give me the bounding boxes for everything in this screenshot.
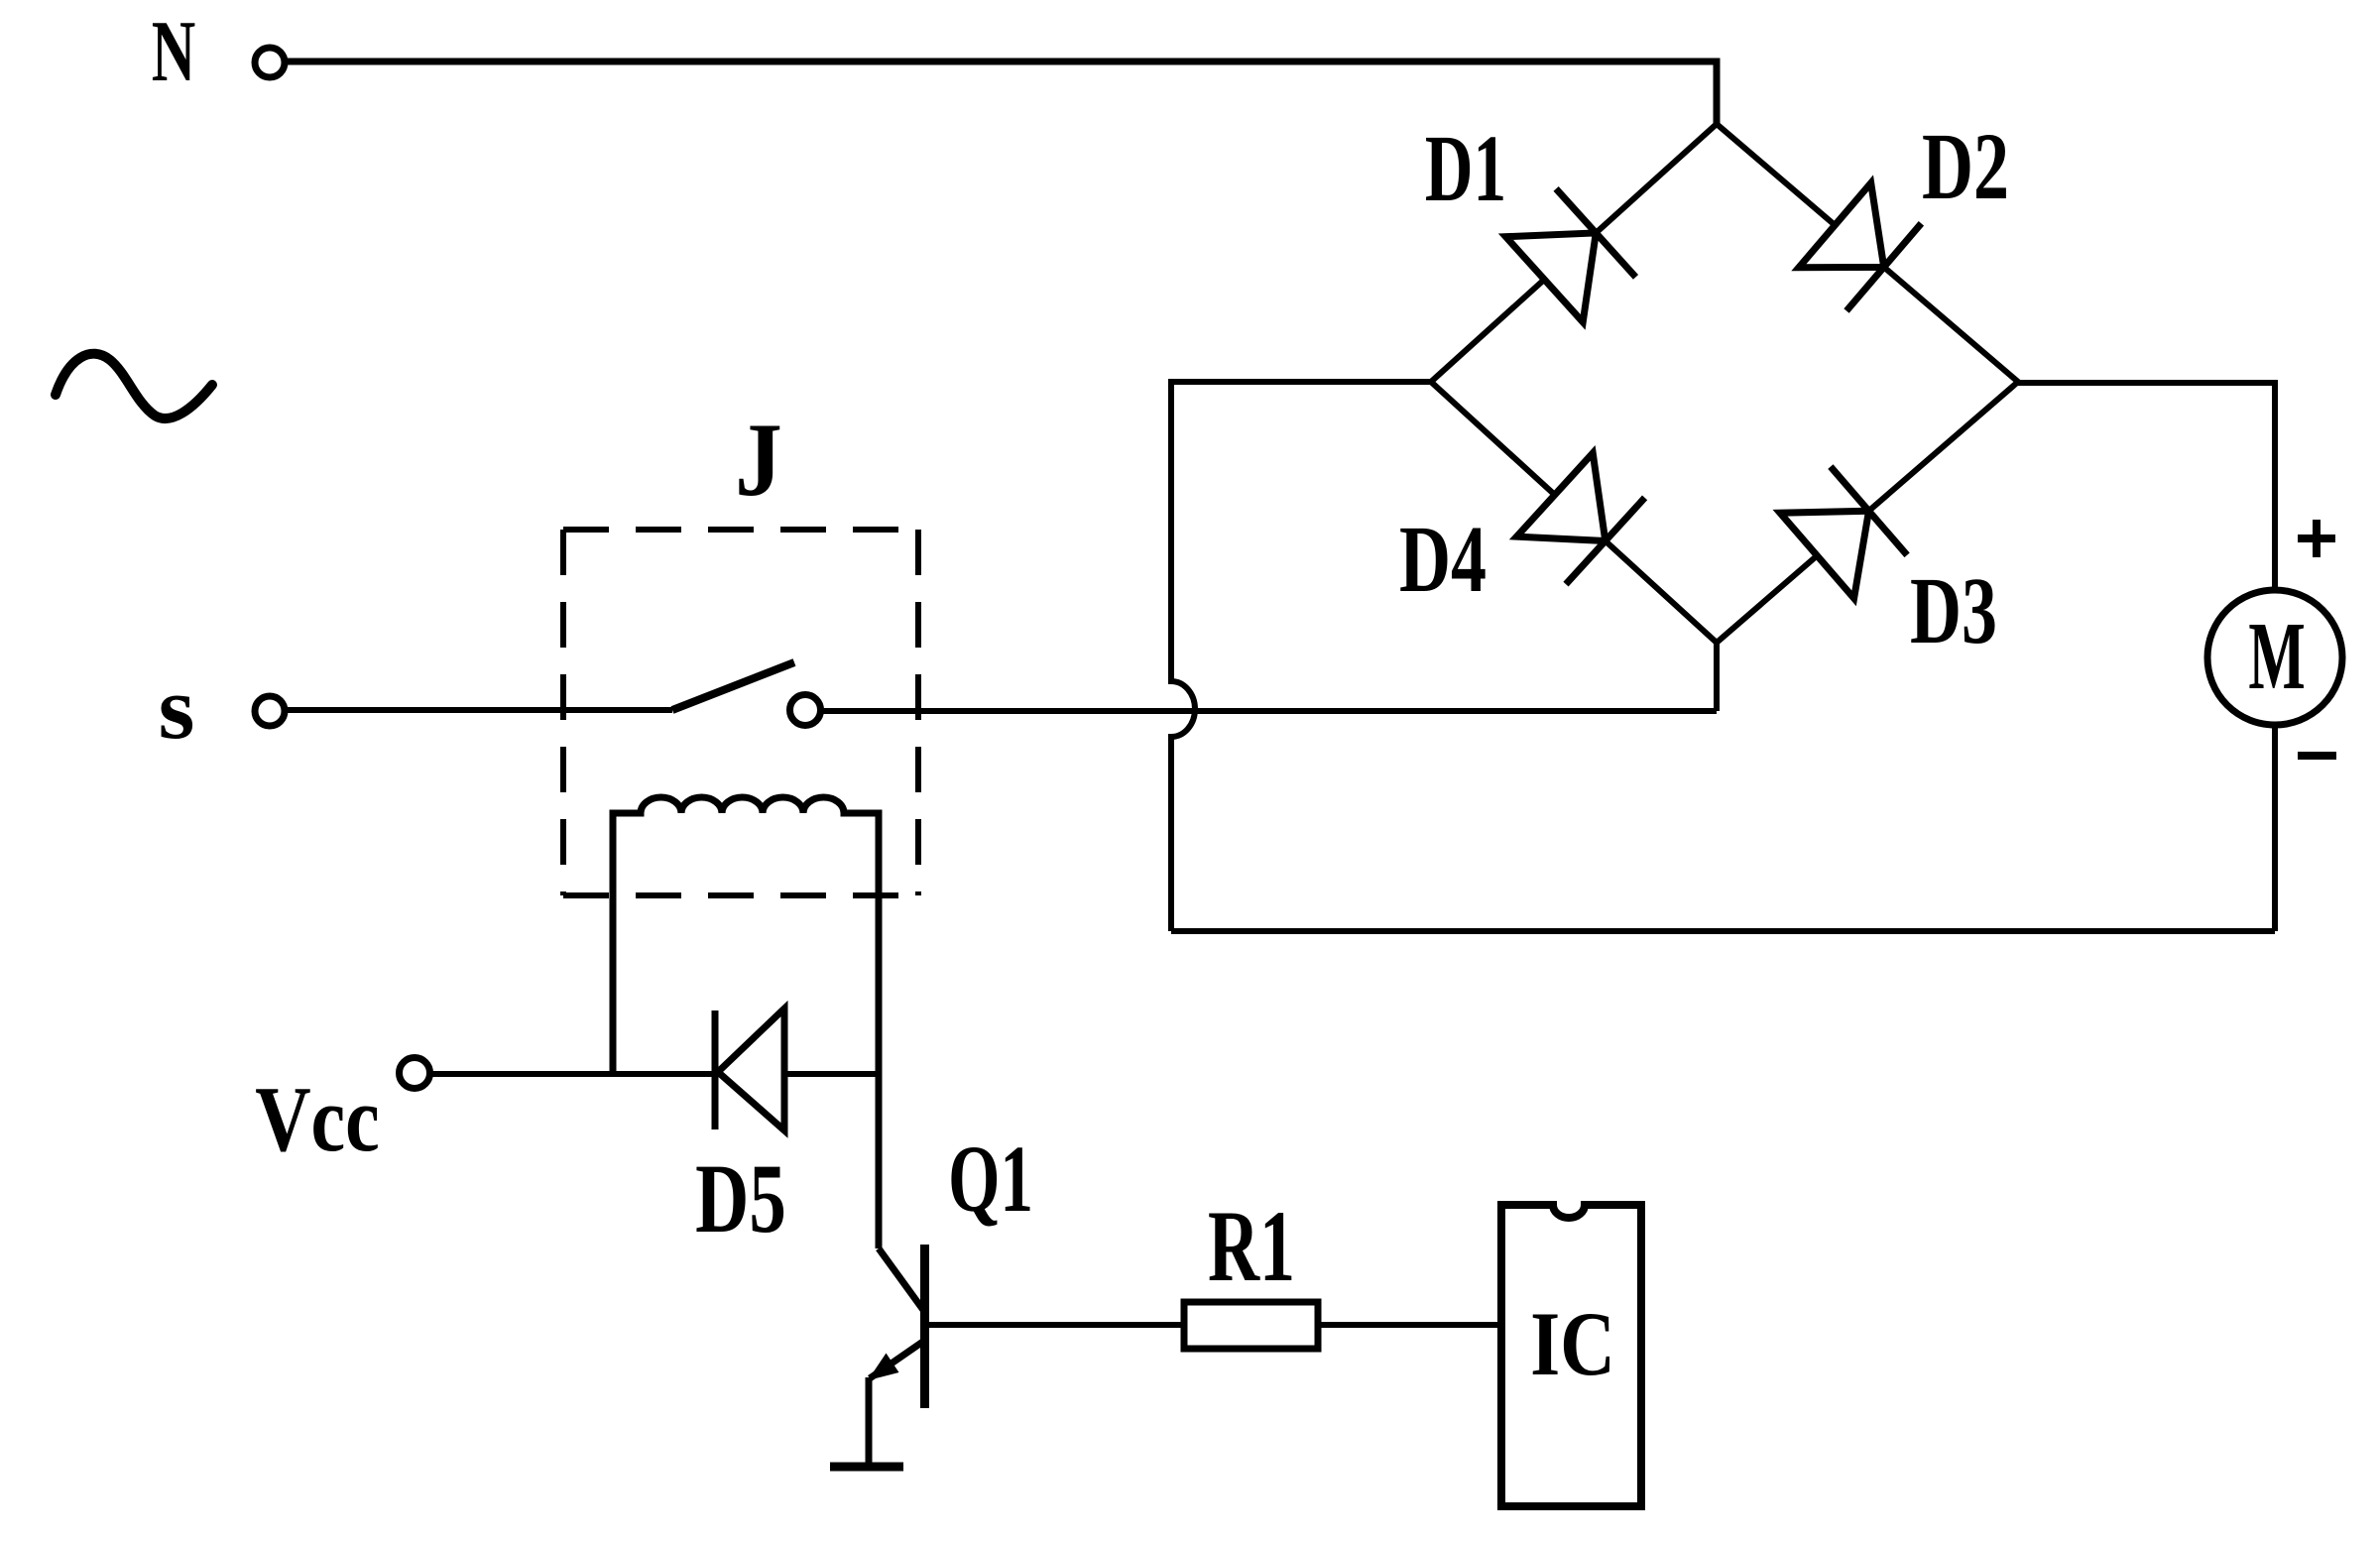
wire R1 to IC [1318, 1322, 1501, 1328]
svg-text:M: M [2248, 601, 2305, 709]
bottom rail wire [1171, 928, 2275, 934]
motor + label [2298, 520, 2335, 557]
IC U1 box [1501, 1205, 1641, 1506]
diode D2 [1799, 183, 1922, 311]
diode D3 [1780, 467, 1907, 599]
svg-text:J: J [735, 401, 782, 518]
svg-text:s: s [159, 658, 195, 757]
svg-text:D3: D3 [1910, 558, 1997, 663]
wire bridge left vertex to left rail with hop over s-wire [1171, 382, 1431, 931]
svg-text:N: N [152, 3, 195, 99]
wire switch to bridge bottom [821, 708, 1717, 714]
diode D1 [1505, 188, 1635, 322]
wire N to bridge top [286, 61, 1717, 124]
svg-text:D5: D5 [695, 1144, 786, 1254]
wire Q1 base to R1 [928, 1322, 1184, 1328]
svg-text:Vcc: Vcc [255, 1067, 380, 1170]
wire bridge right vertex to motor [2018, 383, 2275, 590]
terminal N [255, 48, 285, 77]
switch blade [672, 662, 794, 710]
svg-text:D2: D2 [1922, 114, 2009, 219]
wire motor to bottom rail [2272, 725, 2278, 931]
svg-text:Q1: Q1 [948, 1126, 1033, 1232]
motor - label [2298, 752, 2336, 760]
ground [830, 1463, 903, 1472]
bridge rectifier diamond wires [1431, 124, 2018, 643]
wire Vcc to coil/diode [429, 1071, 879, 1077]
svg-text:IC: IC [1530, 1294, 1615, 1395]
relay coil [613, 797, 879, 1248]
svg-text:D1: D1 [1425, 115, 1506, 221]
terminal Vcc [400, 1058, 430, 1089]
diode D5 [715, 1009, 784, 1130]
resistor R1 [1184, 1302, 1318, 1349]
wire s to switch [288, 707, 672, 713]
svg-text:R1: R1 [1208, 1191, 1295, 1304]
wire bridge bottom vertex to s-wire [1714, 643, 1720, 711]
transistor Q1 [868, 1245, 925, 1408]
switch contact circle [790, 695, 821, 726]
diode D4 [1516, 453, 1644, 584]
relay J dashed box [563, 530, 918, 895]
AC source tilde [56, 354, 212, 418]
terminal s [255, 696, 285, 726]
svg-text:D4: D4 [1399, 507, 1487, 612]
wire emitter to ground [866, 1377, 873, 1467]
motor M [2207, 590, 2342, 725]
